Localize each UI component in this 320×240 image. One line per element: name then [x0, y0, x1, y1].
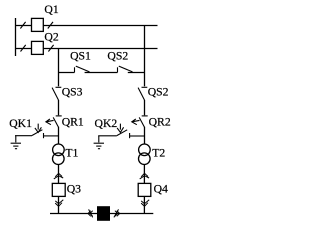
wire bottom bus — [50, 213, 153, 215]
breaker Q3 — [52, 183, 65, 196]
svg-text:QS2: QS2 — [107, 49, 128, 62]
wire feeder vertical — [15, 18, 17, 56]
breaker Q1 — [32, 18, 44, 31]
svg-text:T1: T1 — [65, 147, 78, 160]
svg-text:Q4: Q4 — [154, 182, 168, 195]
svg-text:QK1: QK1 — [9, 117, 32, 130]
wire left vertical below QR1 — [58, 127, 60, 145]
wire QS transfer line — [59, 72, 145, 74]
svg-text:QR2: QR2 — [149, 115, 171, 128]
slash on line B before Q2 — [21, 45, 26, 52]
isolating contact QR1 blade — [53, 117, 58, 127]
disconnector QS1 — [75, 66, 90, 72]
wire Q3 to bus — [58, 196, 60, 213]
arrow at QR2 blade — [132, 119, 140, 125]
wire right vertical below QS2 — [144, 100, 146, 115]
disconnector QS2 (right feeder) — [138, 87, 147, 100]
wire left vertical below QS3 — [58, 100, 60, 115]
grounding switch QK1 — [15, 124, 59, 139]
drawout contact below Q3 — [55, 200, 63, 207]
bus contact left of tie — [88, 209, 93, 217]
svg-text:Q1: Q1 — [44, 3, 58, 16]
svg-text:QS1: QS1 — [70, 49, 91, 62]
wire bus line A — [15, 25, 158, 27]
bus contact right of tie — [114, 209, 120, 217]
svg-text:Q2: Q2 — [44, 30, 58, 43]
drawout contact below Q4 — [141, 200, 149, 207]
bus tie block — [97, 206, 110, 221]
breaker Q2 — [32, 41, 44, 54]
slash on line A after Q1 — [48, 22, 53, 29]
slash on line B after Q2 — [48, 45, 53, 52]
contact bar above QR2 — [142, 115, 148, 117]
drawout contact above Q4 — [140, 173, 149, 179]
breaker Q4 — [138, 183, 151, 196]
wire left branch drop from line B — [58, 49, 60, 87]
svg-text:QS2: QS2 — [148, 85, 169, 98]
wire bus line B — [15, 48, 158, 50]
transformer T1 — [53, 144, 65, 165]
drawout contact above Q3 — [54, 173, 63, 179]
wire T1 to Q3 — [58, 164, 60, 183]
disconnector QS3 — [52, 87, 61, 100]
grounding switch QK2 — [98, 124, 144, 139]
ground (right) — [94, 136, 104, 149]
svg-text:QK2: QK2 — [95, 117, 118, 130]
ground (left) — [11, 136, 21, 149]
svg-text:QS3: QS3 — [62, 85, 83, 98]
disconnector QS2 (transfer) — [118, 66, 133, 72]
svg-text:QR1: QR1 — [62, 115, 84, 128]
arrow at QR1 blade — [46, 119, 54, 125]
contact bar above QR1 — [56, 115, 62, 117]
svg-text:T2: T2 — [152, 147, 165, 160]
wire Q4 to bus — [143, 196, 145, 213]
slash on line A before Q1 — [20, 22, 25, 29]
svg-text:Q3: Q3 — [67, 182, 81, 195]
isolating contact QR2 blade — [139, 117, 144, 127]
transformer T2 — [139, 144, 151, 165]
wire right vertical below QR2 — [144, 127, 146, 145]
wire right branch drop from line A — [144, 26, 146, 87]
wire T2 to Q4 — [143, 164, 145, 183]
